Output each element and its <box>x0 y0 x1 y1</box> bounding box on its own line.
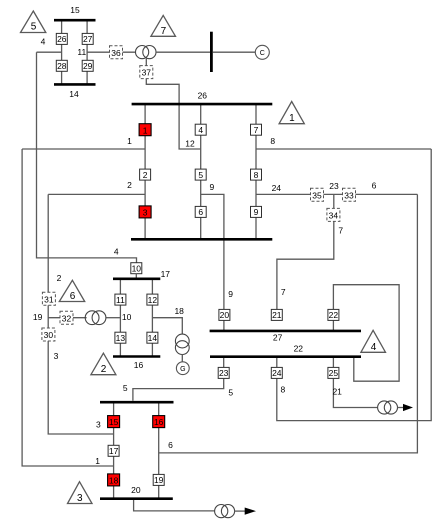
svg-text:32: 32 <box>62 313 72 323</box>
external grid triangle 4 <box>361 330 386 353</box>
svg-text:27: 27 <box>83 34 93 44</box>
external grid triangle 2 <box>91 353 116 375</box>
wire breaker 10 to busbar 17 <box>135 274 137 279</box>
svg-text:17: 17 <box>109 446 119 456</box>
external grid triangle 3 <box>68 482 93 505</box>
breaker 8 <box>251 169 262 180</box>
wire busbar 22 to breaker 25 <box>332 357 334 368</box>
breaker 27 <box>82 33 93 44</box>
breaker 26 <box>56 33 67 44</box>
svg-text:7: 7 <box>281 287 286 297</box>
svg-text:11: 11 <box>77 47 86 57</box>
wire line 2 vertical <box>47 194 49 292</box>
svg-text:5: 5 <box>123 383 128 393</box>
breaker 16 (closed, red) <box>153 416 165 428</box>
breaker 15 (closed, red) <box>108 416 120 428</box>
switch 36 (dashed) <box>110 46 123 59</box>
condenser C <box>255 45 269 59</box>
svg-text:17: 17 <box>161 269 171 279</box>
svg-text:21: 21 <box>332 387 342 397</box>
external grid triangle 1 <box>279 102 304 125</box>
breaker 2 <box>140 169 151 180</box>
busbar 17 <box>113 269 170 279</box>
svg-text:C: C <box>260 50 265 57</box>
svg-text:4: 4 <box>114 246 119 256</box>
breaker 6 <box>195 206 206 217</box>
switch 33 (dashed) <box>343 188 356 201</box>
wire line 8 (right stub) <box>256 148 431 150</box>
svg-text:36: 36 <box>111 48 121 58</box>
breaker 3 (closed, red) <box>139 206 151 218</box>
wire breaker 20 to busbar 27 <box>223 321 225 331</box>
svg-text:37: 37 <box>142 68 152 78</box>
svg-text:16: 16 <box>134 360 144 370</box>
wire column breakers 12/14 <box>151 279 153 357</box>
svg-text:26: 26 <box>57 34 67 44</box>
svg-text:19: 19 <box>33 312 43 322</box>
svg-text:23: 23 <box>329 181 339 191</box>
svg-text:1: 1 <box>127 136 132 146</box>
wire line 24/23/6 (right stub) <box>256 193 417 195</box>
svg-text:6: 6 <box>70 291 76 302</box>
svg-text:2: 2 <box>101 364 107 375</box>
wire busbar 20 to load transformer <box>134 500 215 511</box>
wire transformer tap to switch 37 <box>145 59 147 66</box>
svg-text:24: 24 <box>272 183 282 193</box>
wire busbar 22 to breaker 24 <box>276 357 278 368</box>
svg-text:20: 20 <box>131 485 141 495</box>
wire transformer to generator G <box>181 354 183 362</box>
wire node 23 to switch 34 <box>333 194 335 208</box>
svg-text:4: 4 <box>371 342 377 353</box>
svg-text:3: 3 <box>143 208 148 218</box>
wire column breakers 1-2-3 <box>144 104 146 239</box>
svg-text:30: 30 <box>44 330 54 340</box>
svg-text:16: 16 <box>154 417 164 427</box>
svg-text:29: 29 <box>83 61 93 71</box>
svg-text:6: 6 <box>198 207 203 217</box>
svg-text:5: 5 <box>198 170 203 180</box>
svg-text:35: 35 <box>312 190 322 200</box>
svg-text:34: 34 <box>329 211 339 221</box>
wire column breakers 7-8-9 <box>255 104 257 239</box>
breaker 10 <box>131 263 142 274</box>
svg-text:15: 15 <box>70 5 80 15</box>
wire line 2 (left stub) <box>48 193 145 195</box>
svg-text:6: 6 <box>372 181 377 191</box>
breaker 5 <box>195 169 206 180</box>
svg-text:1: 1 <box>95 456 100 466</box>
svg-text:12: 12 <box>185 138 195 148</box>
wire breaker 22 to busbar 27 <box>332 321 334 331</box>
wire line 1 (long left vertical) <box>22 149 114 466</box>
svg-text:21: 21 <box>272 310 282 320</box>
svg-text:1: 1 <box>143 125 148 135</box>
busbar 27 <box>210 331 361 343</box>
wire transformer to bus 17 column <box>106 317 120 319</box>
svg-text:4: 4 <box>41 37 46 47</box>
wire breaker 22 loop to busbar 22 <box>333 285 399 382</box>
wire column B (breakers 27/29) <box>86 20 88 85</box>
busbar 14 <box>54 84 96 99</box>
svg-text:14: 14 <box>69 89 79 99</box>
busbar 26 <box>132 91 273 104</box>
svg-text:26: 26 <box>198 91 208 101</box>
svg-text:28: 28 <box>57 61 67 71</box>
svg-text:3: 3 <box>77 493 83 504</box>
wire busbar 22 to breaker 23 <box>223 357 225 368</box>
wire node 11 right segment to switch 36 <box>87 51 136 53</box>
svg-text:12: 12 <box>148 295 158 305</box>
wire line 3: switch 30 to station 3 <box>48 341 113 434</box>
svg-text:9: 9 <box>228 289 233 299</box>
wire column breakers 16/19 <box>158 402 160 499</box>
generator G <box>176 362 189 375</box>
load transformer of line 21 <box>378 401 413 414</box>
svg-text:2: 2 <box>143 170 148 180</box>
wire column A (breakers 26/28) <box>61 20 63 85</box>
external grid triangle 5 <box>21 11 46 33</box>
svg-text:9: 9 <box>254 207 259 217</box>
generator transformer <box>175 334 189 354</box>
breaker 4 <box>195 124 206 135</box>
busbar 15 <box>54 5 96 20</box>
breaker 23 <box>218 367 229 378</box>
svg-text:33: 33 <box>344 190 354 200</box>
wire line 21 breaker 25 to load <box>333 379 377 408</box>
breaker 28 <box>56 60 67 71</box>
svg-text:5: 5 <box>31 22 37 33</box>
upper busbar of station 4 <box>100 401 174 404</box>
svg-text:8: 8 <box>254 170 259 180</box>
breaker 17 <box>108 445 119 456</box>
svg-text:27: 27 <box>273 332 283 342</box>
busbar 20 <box>100 485 173 499</box>
svg-text:18: 18 <box>109 476 119 486</box>
svg-text:2: 2 <box>127 180 132 190</box>
wire line 6 (right vertical, to station 4) <box>159 194 418 453</box>
wire bus to condenser C <box>213 51 256 53</box>
svg-text:2: 2 <box>57 273 62 283</box>
svg-text:5: 5 <box>228 388 233 398</box>
breaker 13 <box>115 332 126 343</box>
wire line 18 to generator <box>152 318 182 335</box>
svg-text:23: 23 <box>219 368 229 378</box>
breaker 25 <box>328 367 339 378</box>
wire line 5 breaker 23 to station 3 <box>133 379 224 401</box>
wire node 19 to transformer <box>48 317 86 319</box>
breaker 14 <box>147 332 158 343</box>
svg-text:25: 25 <box>329 368 339 378</box>
switch 32 (dashed) <box>60 311 73 324</box>
breaker 29 <box>82 60 93 71</box>
breaker 12 <box>147 294 158 305</box>
switch 34 (dashed) <box>327 208 340 221</box>
stub busbar (vertical) <box>210 32 213 72</box>
svg-text:14: 14 <box>148 333 158 343</box>
busbar 22 <box>210 344 361 357</box>
switch 37 (dashed) <box>140 66 153 79</box>
lower busbar of station 1 <box>131 238 272 241</box>
svg-text:15: 15 <box>109 417 119 427</box>
svg-text:1: 1 <box>289 113 295 124</box>
wire line 1 (left stub) <box>22 148 145 150</box>
breaker 18 (closed, red) <box>108 474 120 486</box>
wire between 31 and 30 <box>47 305 49 328</box>
wire line 8 (right vertical, to breaker 24) <box>277 149 431 421</box>
svg-text:7: 7 <box>254 125 259 135</box>
wire switch 37 to node 12 <box>146 79 200 149</box>
svg-text:31: 31 <box>44 294 54 304</box>
svg-text:8: 8 <box>270 136 275 146</box>
svg-text:8: 8 <box>281 384 286 394</box>
transformer T-32 <box>85 311 106 325</box>
svg-text:10: 10 <box>132 264 142 274</box>
svg-text:9: 9 <box>210 182 215 192</box>
breaker 11 <box>115 294 126 305</box>
svg-text:11: 11 <box>116 295 125 305</box>
svg-text:7: 7 <box>338 226 343 236</box>
transformer T-36 <box>136 46 156 59</box>
switch 35 (dashed) <box>311 188 324 201</box>
svg-text:13: 13 <box>116 333 126 343</box>
svg-text:6: 6 <box>168 440 173 450</box>
wire column breakers 4-5-6 <box>200 104 202 239</box>
load transformer of station 4 <box>215 505 256 518</box>
external grid triangle 6 <box>59 280 84 302</box>
busbar 16 <box>113 357 160 370</box>
svg-text:22: 22 <box>329 310 339 320</box>
wire transformer to stub bus <box>156 51 210 53</box>
wire line 7 switch 34 to breaker 21 <box>277 221 334 309</box>
switch 31 (dashed) <box>42 292 55 305</box>
breaker 21 <box>271 309 282 320</box>
svg-text:24: 24 <box>272 368 282 378</box>
wire line 4 <box>37 52 137 263</box>
breaker 9 <box>251 206 262 217</box>
wire line 9 to breaker 20 <box>201 194 224 309</box>
breaker 19 <box>153 474 164 485</box>
svg-text:7: 7 <box>161 26 167 37</box>
wire column breakers 11/13 <box>119 279 121 357</box>
wire node 11 left segment <box>37 51 62 53</box>
svg-text:G: G <box>180 366 185 373</box>
breaker 22 <box>328 309 339 320</box>
breaker 24 <box>271 367 282 378</box>
breaker 1 (closed, red) <box>139 124 151 136</box>
svg-text:10: 10 <box>122 312 132 322</box>
svg-text:3: 3 <box>96 420 101 430</box>
svg-text:20: 20 <box>220 310 230 320</box>
breaker 20 <box>219 309 230 320</box>
svg-text:19: 19 <box>154 475 164 485</box>
external grid triangle 7 <box>151 15 176 36</box>
svg-text:3: 3 <box>54 351 59 361</box>
svg-text:22: 22 <box>294 344 304 354</box>
breaker 7 <box>251 124 262 135</box>
svg-text:4: 4 <box>198 125 203 135</box>
switch 30 (dashed) <box>42 328 55 341</box>
wire column breakers 15/17/18 <box>113 402 115 499</box>
svg-text:18: 18 <box>174 306 184 316</box>
